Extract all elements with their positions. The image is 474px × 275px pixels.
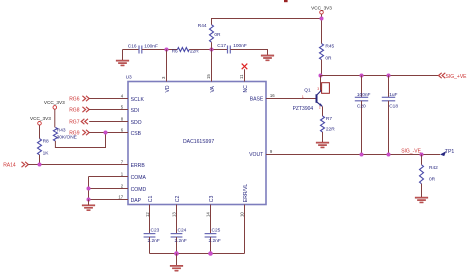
wire VA stub xyxy=(211,50,213,82)
svg-text:BASE: BASE xyxy=(250,97,264,103)
node DAP junction xyxy=(87,198,91,202)
svg-text:2.2nF: 2.2nF xyxy=(209,238,221,244)
svg-text:C23: C23 xyxy=(151,227,160,233)
svg-text:2.2nF: 2.2nF xyxy=(148,238,160,244)
wire RG8 to SDI xyxy=(89,109,128,111)
net SIG_+VE chevron xyxy=(439,73,446,78)
node C25 rail junction xyxy=(208,251,213,256)
svg-text:C25: C25 xyxy=(212,227,221,233)
wire VOUT rail xyxy=(266,154,440,156)
svg-text:C18: C18 xyxy=(389,104,398,110)
annotation box at Q1 collector xyxy=(322,83,330,94)
svg-text:30K/ONE: 30K/ONE xyxy=(57,134,77,140)
svg-text:0R: 0R xyxy=(325,55,332,61)
svg-text:VA: VA xyxy=(210,85,216,92)
IC U3 DAC161S997 body xyxy=(128,82,266,205)
svg-text:100nF: 100nF xyxy=(233,43,247,49)
wire R44 bottom lead xyxy=(211,42,213,49)
wire R45 to collector xyxy=(321,60,323,76)
net RA14 chevron xyxy=(22,162,29,167)
svg-text:SCLK: SCLK xyxy=(131,97,145,103)
svg-text:RG8: RG8 xyxy=(69,108,80,114)
capacitor C17 xyxy=(228,46,231,54)
svg-text:Q1: Q1 xyxy=(304,87,311,93)
svg-text:C2: C2 xyxy=(175,196,181,203)
svg-text:VD: VD xyxy=(165,85,171,92)
capacitor C20 xyxy=(355,76,368,155)
svg-text:TP1: TP1 xyxy=(445,149,455,155)
resistor R45 xyxy=(320,44,324,60)
wire RG6 to SCLK xyxy=(89,98,128,100)
resistor R6 xyxy=(177,48,189,52)
svg-text:C1: C1 xyxy=(148,196,154,203)
ground for bottom rail xyxy=(170,254,183,272)
svg-text:1uF: 1uF xyxy=(389,92,397,98)
node C20 top junction xyxy=(360,74,364,78)
svg-text:R43: R43 xyxy=(57,128,66,134)
svg-text:SIG_+VE: SIG_+VE xyxy=(446,74,468,80)
resistor R8 xyxy=(38,139,42,155)
wire top rail xyxy=(123,49,140,51)
ground for COMA/COMD/DAP xyxy=(82,200,95,211)
resistor R42 xyxy=(420,155,424,198)
wire NC stub xyxy=(244,69,246,81)
svg-text:10: 10 xyxy=(240,212,245,217)
wire VD stub xyxy=(166,50,168,82)
svg-text:RG7: RG7 xyxy=(69,120,80,126)
wire bottom rail xyxy=(150,253,245,255)
node collector junction xyxy=(319,74,323,78)
svg-text:C17: C17 xyxy=(217,43,226,49)
ground for R42 xyxy=(415,197,428,198)
svg-text:NC: NC xyxy=(243,85,249,93)
wire rail C16 to R6 xyxy=(142,49,178,51)
transistor Q1 PZT3904 xyxy=(317,76,323,117)
svg-text:CSB: CSB xyxy=(131,131,142,137)
svg-text:R44: R44 xyxy=(198,23,207,29)
svg-text:R42: R42 xyxy=(429,165,438,171)
capacitor C25 xyxy=(205,205,217,254)
svg-text:17: 17 xyxy=(118,194,123,199)
node C20 bottom junction xyxy=(360,153,364,157)
net RG8 chevron xyxy=(82,107,89,112)
wire RA14 to ERRB xyxy=(28,164,128,166)
wire R44 top elbow xyxy=(212,19,322,25)
net RG9 chevron xyxy=(82,130,89,135)
svg-text:R45: R45 xyxy=(325,44,334,50)
wire ERR/VL stub xyxy=(244,205,246,254)
wire collector rail xyxy=(321,75,439,77)
wire R8 to ERRB net xyxy=(39,155,41,165)
wire C17 to ground xyxy=(230,50,267,55)
svg-text:3: 3 xyxy=(317,87,319,91)
svg-text:11: 11 xyxy=(239,74,244,79)
title fragment (cropped red text) xyxy=(284,0,288,2)
svg-text:C16: C16 xyxy=(128,43,137,49)
svg-text:SIG_-VE: SIG_-VE xyxy=(401,149,421,155)
wire DAP xyxy=(89,199,129,201)
svg-text:DAC161S997: DAC161S997 xyxy=(183,139,214,145)
resistor R7 xyxy=(321,116,325,142)
node R8/ERRB junction xyxy=(38,163,42,167)
svg-text:RG6: RG6 xyxy=(69,97,80,103)
node VD junction xyxy=(165,48,169,52)
ground for C16 xyxy=(116,50,129,67)
wire BASE to Q1 xyxy=(266,98,317,100)
svg-text:R6: R6 xyxy=(172,48,178,54)
svg-text:22R: 22R xyxy=(326,127,335,133)
svg-text:VCC_3V3: VCC_3V3 xyxy=(30,116,51,121)
power VCC_3V3 (R8) xyxy=(38,122,42,139)
svg-text:COMD: COMD xyxy=(131,187,147,193)
svg-text:R8: R8 xyxy=(43,138,49,144)
wire RG9 to CSB xyxy=(89,132,128,134)
node R43/CSB junction xyxy=(104,131,108,135)
node VCC junction xyxy=(320,17,324,21)
svg-text:U3: U3 xyxy=(126,75,132,81)
capacitor C24 xyxy=(171,205,183,254)
svg-text:14: 14 xyxy=(205,212,210,217)
svg-text:VCC_3V3: VCC_3V3 xyxy=(311,5,332,10)
svg-text:C3: C3 xyxy=(209,196,215,203)
svg-text:VOUT: VOUT xyxy=(249,152,263,158)
ground for R7 xyxy=(316,142,329,143)
node C18 bottom junction xyxy=(387,153,391,157)
test point TP1 xyxy=(440,151,446,156)
wire R6 to VA node xyxy=(189,49,227,51)
svg-text:13: 13 xyxy=(172,212,177,217)
wire COMA-COMD-DAP tie xyxy=(88,177,90,200)
node C24 rail junction xyxy=(174,251,179,256)
resistor R43 xyxy=(53,127,57,141)
svg-text:RA14: RA14 xyxy=(3,163,16,169)
svg-text:ERRB: ERRB xyxy=(131,163,146,169)
wire COMD xyxy=(89,188,129,190)
node R42 junction xyxy=(420,153,424,157)
svg-text:C24: C24 xyxy=(178,227,187,233)
svg-text:2: 2 xyxy=(319,106,321,110)
svg-text:1K: 1K xyxy=(43,151,50,157)
wire RG7 to SDO xyxy=(89,121,128,123)
node VA junction xyxy=(210,48,214,52)
svg-text:16: 16 xyxy=(270,93,275,98)
svg-text:ERR/VL: ERR/VL xyxy=(243,184,249,203)
wire COMA xyxy=(89,176,129,178)
svg-text:100nF: 100nF xyxy=(144,43,158,49)
net RG7 chevron xyxy=(81,119,88,124)
capacitor C23 xyxy=(144,205,156,254)
svg-text:VCC_3V3: VCC_3V3 xyxy=(44,100,65,105)
ground for C17 xyxy=(261,55,274,56)
svg-text:PZT3904: PZT3904 xyxy=(293,106,314,112)
capacitor C18 xyxy=(382,76,395,155)
svg-text:1: 1 xyxy=(302,95,304,99)
svg-text:0R: 0R xyxy=(214,32,221,38)
svg-text:C20: C20 xyxy=(357,104,366,110)
svg-text:100nF: 100nF xyxy=(357,92,371,98)
svg-text:0R: 0R xyxy=(429,177,436,183)
svg-text:2.2nF: 2.2nF xyxy=(175,238,187,244)
svg-text:R7: R7 xyxy=(326,116,332,122)
svg-text:COMA: COMA xyxy=(131,175,147,181)
net RG6 chevron xyxy=(82,96,89,101)
svg-text:SDO: SDO xyxy=(131,120,142,126)
svg-text:DAP: DAP xyxy=(131,198,142,204)
power VCC_3V3 (top right) xyxy=(320,11,324,44)
node COMD junction xyxy=(87,187,91,191)
power VCC_3V3 (R43) xyxy=(53,106,57,128)
capacitor C16 xyxy=(139,46,142,54)
resistor R44 xyxy=(210,25,214,43)
node C18 top junction xyxy=(387,74,391,78)
svg-text:15: 15 xyxy=(206,74,211,79)
wire R43 to CSB net xyxy=(55,133,105,148)
svg-text:SDI: SDI xyxy=(131,108,140,114)
no-connect X on pin 11 xyxy=(242,64,248,70)
